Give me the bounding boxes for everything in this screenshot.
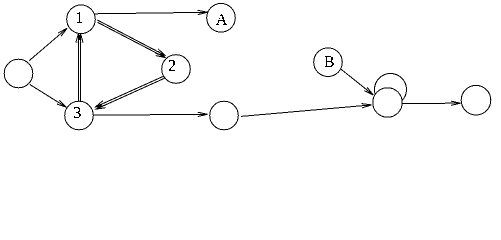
wire edge 3 to 4: [94, 113, 208, 116]
node unlabeled 5: [373, 88, 403, 118]
node B: [314, 48, 343, 77]
node unlabeled 6: [461, 85, 491, 115]
wire edge 2 to 3 line a: [96, 75, 167, 107]
wire edge 0 to 1: [29, 28, 67, 60]
wire edge 4 to 5: [241, 105, 372, 117]
wire edge B to 5: [341, 69, 373, 95]
node 3: [65, 101, 94, 130]
node 1: [67, 5, 96, 34]
wire edge 3 to 1 line a: [77, 34, 79, 102]
wire self-loop on node 5: [375, 74, 407, 106]
wire edge 1 to 2 line a: [98, 20, 165, 55]
node unlabeled left: [4, 59, 33, 88]
node A: [207, 3, 236, 32]
wire edge 1 to 2 line b: [98, 22, 166, 57]
wire edge 2 to 3 line b: [96, 77, 167, 109]
wire edge 3 to 1 line b: [80, 34, 82, 102]
node unlabeled 4: [210, 101, 239, 130]
wire edge 1 to A: [95, 12, 208, 14]
node 2: [162, 55, 191, 84]
wire edge 0 to 3: [30, 85, 67, 108]
wire edge 5 to 6: [402, 102, 460, 104]
